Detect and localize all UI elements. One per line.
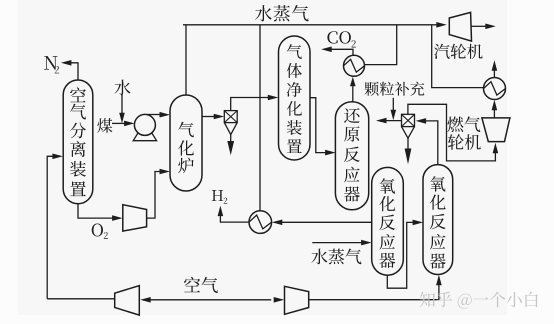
vessel air separation unit xyxy=(63,80,93,204)
label water xyxy=(115,80,131,96)
label air separation unit text xyxy=(70,87,86,196)
steam turbine symbol xyxy=(449,12,471,41)
watermark zhihu xyxy=(420,292,538,309)
wire oxidation reactor 2 top to cyclone2 xyxy=(424,121,438,165)
label coal xyxy=(97,118,112,133)
cyclone separator 1 xyxy=(224,111,237,123)
label CO2 xyxy=(327,31,356,47)
label steam turbine text xyxy=(434,44,483,59)
wire CO2 outlet xyxy=(330,49,353,55)
vessel gas purifier xyxy=(279,36,311,160)
label particle makeup xyxy=(365,82,425,96)
label oxidation reactor2 text xyxy=(430,176,446,268)
label N2 xyxy=(44,56,59,73)
label O2 xyxy=(92,224,108,239)
gas turbine symbol xyxy=(482,118,510,142)
label air (bottom) xyxy=(184,277,218,293)
H2 cooler exchanger xyxy=(249,211,272,234)
vessel oxidation reactor 1 xyxy=(372,167,404,275)
wire H2 product line xyxy=(220,214,249,222)
label H2 xyxy=(212,190,228,204)
label gas purifier text xyxy=(287,44,302,153)
label reduction reactor text xyxy=(344,108,360,202)
wire CO2 cooler to steam header xyxy=(365,25,397,65)
label gas turbine text xyxy=(447,116,480,149)
wire air line between compressors xyxy=(149,299,272,301)
label oxidation reactor1 text xyxy=(379,178,395,268)
wire bottom air line left segment xyxy=(47,298,114,300)
wire HRSG exchanger vent up xyxy=(493,69,495,78)
wire air to ASU riser xyxy=(47,156,54,298)
coal slurry pump xyxy=(134,114,155,135)
wire O2 compressor to gasifier xyxy=(147,172,162,219)
CO2 cooler exchanger xyxy=(344,55,365,76)
wire steam header from gasifier top to steam turbine xyxy=(185,25,187,95)
wire oxidation reactor1 to H2 cooler xyxy=(281,221,372,223)
wire steam turbine outlet xyxy=(472,25,488,27)
cyclone separator 2 xyxy=(402,114,415,126)
wire gas turbine exhaust to HRSG xyxy=(493,108,495,118)
vessel gasifier xyxy=(170,95,202,191)
wire cyclone1 solids discharge xyxy=(230,135,232,142)
vessel oxidation reactor 2 xyxy=(423,165,453,275)
wire slurry pump to gasifier xyxy=(147,114,162,116)
wire cyclone1 overhead to gas purifier inlet xyxy=(231,98,270,111)
vessel reduction reactor xyxy=(335,102,368,210)
wire cyclone2 fines to reduction reactor xyxy=(385,120,402,122)
wire steam to oxidation reactor 1 xyxy=(312,242,363,244)
wire water feed arrow xyxy=(121,95,123,115)
HRSG exchanger xyxy=(484,78,506,100)
wire steam header to HRSG exchanger xyxy=(432,25,484,88)
ASU air compressor symbol xyxy=(115,286,140,316)
wire coal feed to slurry pump xyxy=(112,122,126,124)
wire O2 from ASU to O2 compressor xyxy=(78,204,114,218)
wire particle makeup down arrow xyxy=(392,98,394,113)
wire oxidation reactor1 bottom U-pipe to oxidation reactor2 xyxy=(387,222,414,288)
wire reduction reactor top to CO2 cooler xyxy=(352,86,354,102)
O2 compressor symbol xyxy=(123,205,147,231)
wire cyclone2 overhead to gas turbine inlet xyxy=(408,104,496,161)
wire N2 vent xyxy=(70,63,78,80)
wire gasifier outlet to cyclone1 xyxy=(202,116,216,118)
air compressor symbol right xyxy=(285,286,309,314)
wire purifier outlet to reduction reactor inlet xyxy=(310,98,327,153)
label steam (top) xyxy=(255,5,309,21)
label gasifier text xyxy=(178,122,194,173)
wire air compressor to oxidation reactor 2 xyxy=(309,283,439,299)
wire riser from steam header down to H2 heat exchanger xyxy=(259,25,261,211)
wire cyclone2 solids discharge xyxy=(407,138,409,149)
label steam (bottom) xyxy=(311,249,361,265)
